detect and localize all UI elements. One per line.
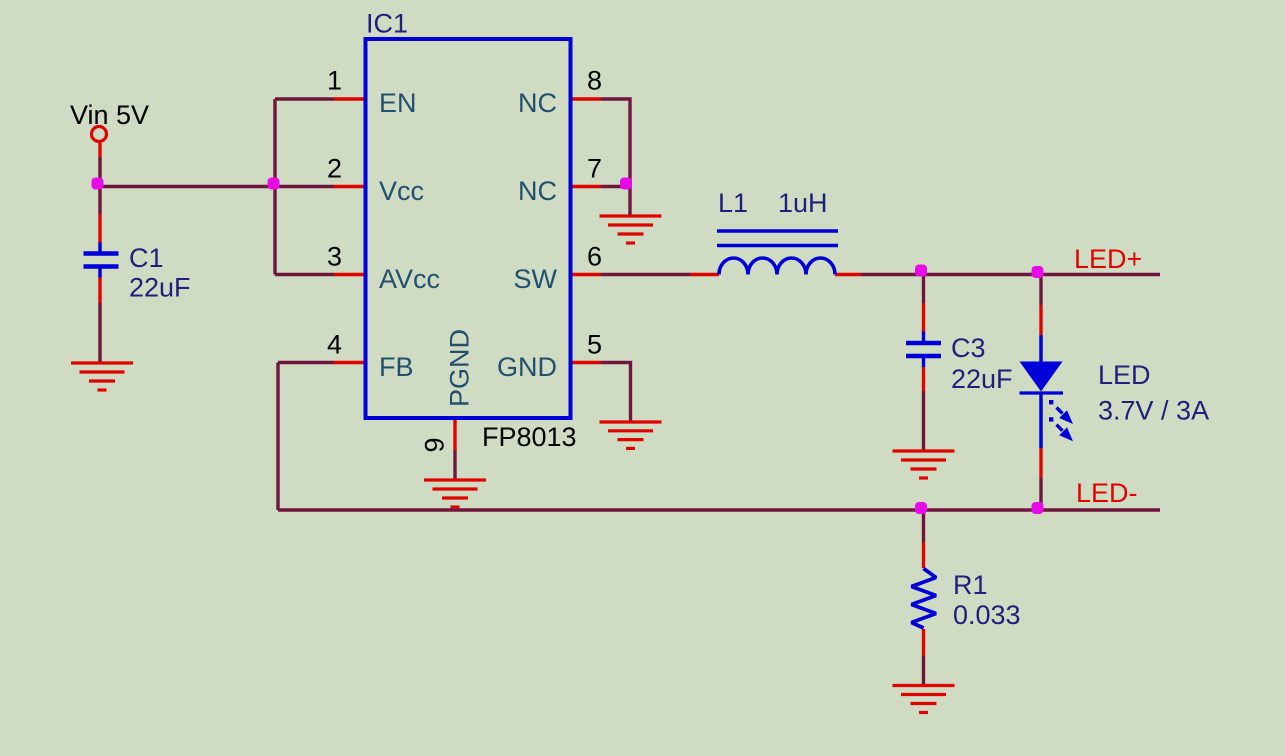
svg-text:L1: L1	[718, 188, 748, 218]
svg-text:FP8013: FP8013	[482, 422, 577, 452]
svg-text:Vin 5V: Vin 5V	[70, 100, 149, 130]
svg-text:1uH: 1uH	[778, 188, 828, 218]
svg-text:9: 9	[420, 437, 450, 452]
svg-text:C1: C1	[129, 243, 164, 273]
svg-text:3: 3	[327, 242, 342, 272]
svg-text:2: 2	[327, 154, 342, 184]
svg-text:IC1: IC1	[366, 9, 408, 39]
svg-text:0.033: 0.033	[953, 600, 1021, 630]
svg-text:EN: EN	[379, 88, 417, 118]
svg-text:4: 4	[327, 330, 342, 360]
svg-text:PGND: PGND	[445, 329, 475, 407]
svg-text:1: 1	[327, 66, 342, 96]
svg-text:6: 6	[587, 242, 602, 272]
svg-text:C3: C3	[951, 333, 986, 363]
svg-text:3.7V / 3A: 3.7V / 3A	[1098, 396, 1209, 426]
svg-text:NC: NC	[518, 176, 557, 206]
svg-text:R1: R1	[953, 570, 988, 600]
svg-text:GND: GND	[497, 352, 557, 382]
svg-text:22uF: 22uF	[129, 273, 191, 303]
svg-text:NC: NC	[518, 88, 557, 118]
svg-text:LED-: LED-	[1076, 478, 1138, 508]
svg-text:22uF: 22uF	[951, 364, 1013, 394]
svg-text:8: 8	[587, 66, 602, 96]
svg-text:FB: FB	[379, 352, 414, 382]
svg-text:7: 7	[587, 154, 602, 184]
svg-text:LED+: LED+	[1074, 244, 1142, 274]
svg-text:LED: LED	[1098, 360, 1151, 390]
svg-text:AVcc: AVcc	[379, 264, 440, 294]
svg-text:Vcc: Vcc	[379, 176, 424, 206]
svg-text:5: 5	[587, 330, 602, 360]
svg-text:SW: SW	[514, 264, 558, 294]
